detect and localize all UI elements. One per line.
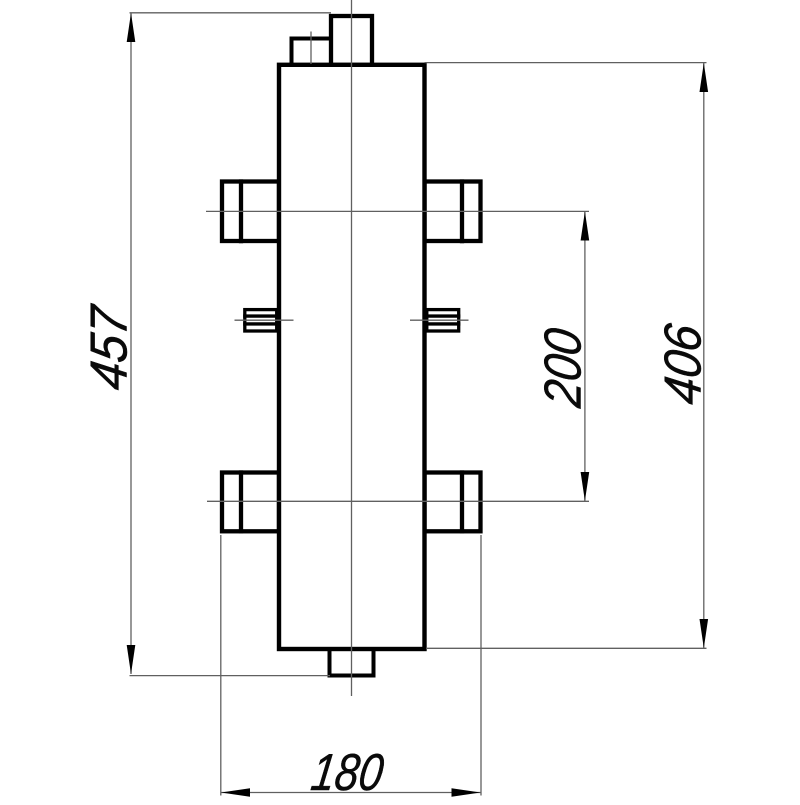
extension line top left (457) (130, 12, 332, 14)
dimension 406 top arrow (700, 63, 709, 92)
dimension 180 right arrow (452, 788, 481, 797)
dimension 457 bottom arrow (127, 645, 136, 674)
upper-left flange divider (239, 179, 243, 243)
dimension 200 top arrow (581, 212, 590, 241)
extension line bottom left (180) (220, 535, 222, 796)
left threaded stub center line (235, 319, 294, 321)
lower-left nozzle pipe+flange outline (222, 473, 279, 532)
svg-text:200: 200 (535, 325, 593, 411)
dimension line 180 (221, 792, 481, 794)
top small stub (left nipple on top) (292, 39, 332, 66)
lower nozzles center line (207, 500, 589, 502)
right threaded stub center line (410, 319, 469, 321)
main body cylinder (279, 65, 425, 649)
lower-right nozzle pipe+flange outline (425, 473, 481, 532)
top main stub (331, 16, 372, 65)
extension line bottom right (180) (480, 535, 482, 796)
left threaded stub thread stripe 1 (243, 314, 277, 317)
left threaded stub thread stripe 2 (243, 322, 277, 325)
dimension 180 left arrow (221, 788, 250, 797)
right threaded stub thread stripe 2 (427, 322, 461, 325)
dimension 406 bottom arrow (700, 619, 709, 648)
svg-text:180: 180 (308, 744, 387, 800)
upper-right flange divider (460, 179, 464, 243)
upper nozzles center line (206, 210, 589, 212)
right threaded stub thread stripe 1 (427, 314, 461, 317)
dimension line 457 (130, 13, 132, 674)
lower-left flange divider (239, 470, 243, 533)
extension line bottom left (457) (130, 675, 331, 677)
main vertical center line (351, 0, 353, 696)
upper-left nozzle pipe+flange outline (222, 182, 279, 242)
small stub center line (310, 32, 312, 65)
svg-text:406: 406 (655, 320, 713, 408)
dimension line 200 (584, 212, 586, 502)
extension line top right (406) (425, 62, 707, 64)
bottom stub (330, 649, 374, 676)
svg-text:457: 457 (81, 301, 139, 393)
lower-right flange divider (460, 470, 464, 533)
dimension 457 top arrow (127, 13, 136, 42)
dimension line 406 (703, 63, 705, 648)
dimension 200 bottom arrow (581, 472, 590, 501)
upper-right nozzle pipe+flange outline (425, 182, 481, 242)
left threaded stub body (245, 310, 277, 331)
right threaded stub body (427, 310, 459, 331)
extension line bottom right (406) (426, 647, 707, 649)
